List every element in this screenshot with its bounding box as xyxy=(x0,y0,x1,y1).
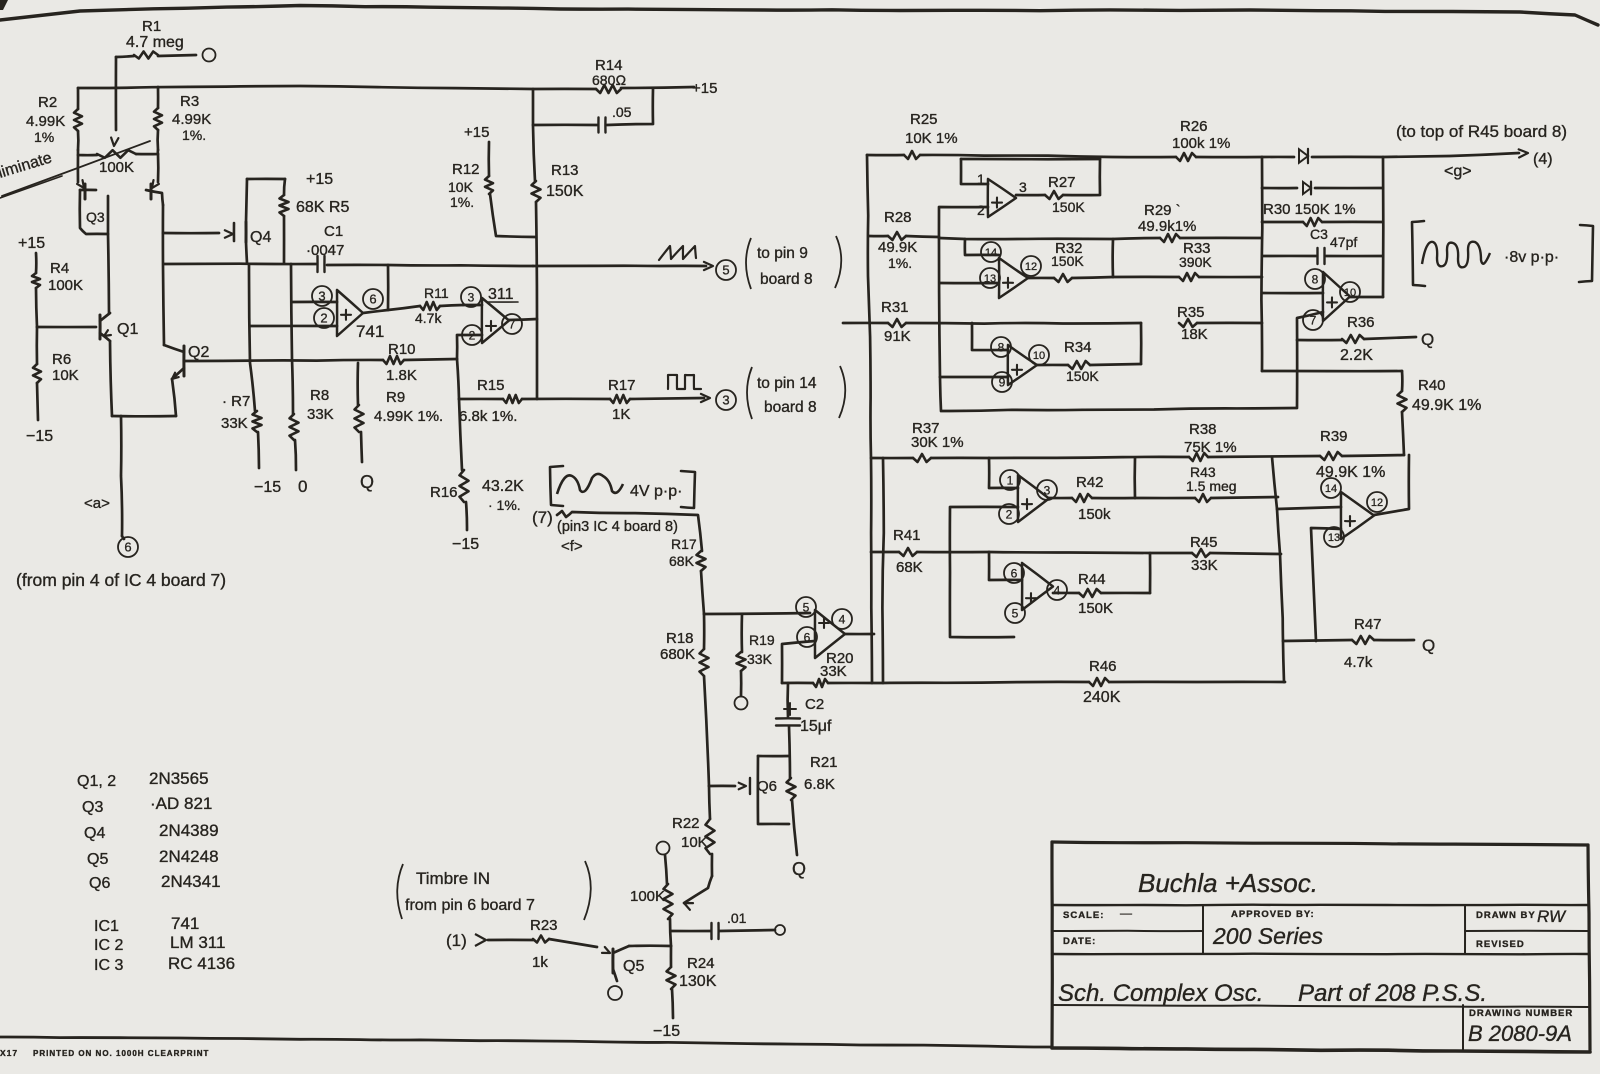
svg-text:6.8k 1%.: 6.8k 1%. xyxy=(459,408,517,425)
741 pin 2 wire xyxy=(250,325,337,328)
left rail upper xyxy=(867,155,872,683)
U10 pin 14 wire xyxy=(1277,507,1341,509)
svg-text:Q1, 2: Q1, 2 xyxy=(77,773,116,790)
svg-text:13: 13 xyxy=(1328,532,1340,544)
resistor R45 xyxy=(989,552,1192,553)
note to pin 14 board 8 xyxy=(747,367,752,419)
resistor R44 xyxy=(1053,592,1079,595)
diode D2 wire xyxy=(1262,187,1297,190)
wire 311pin2 col to R15 line xyxy=(457,359,459,399)
pin 8 circle xyxy=(991,337,1011,357)
svg-text:4V p·p·: 4V p·p· xyxy=(630,483,682,500)
mid op-amp output wire xyxy=(845,633,874,636)
svg-text:from pin 6 board 7: from pin 6 board 7 xyxy=(405,897,535,914)
svg-text:RW: RW xyxy=(1537,907,1567,926)
svg-text:2: 2 xyxy=(469,328,476,342)
svg-text:R29 `: R29 ` xyxy=(1144,202,1181,219)
svg-text:R31: R31 xyxy=(881,299,909,316)
svg-text:+15: +15 xyxy=(464,124,489,141)
square wave symbol xyxy=(668,375,701,389)
svg-text:Q: Q xyxy=(792,859,806,879)
svg-text:15μf: 15μf xyxy=(800,718,832,735)
svg-text:R25: R25 xyxy=(910,111,938,128)
svg-text:board 8: board 8 xyxy=(764,399,817,416)
svg-text:10K 1%: 10K 1% xyxy=(905,130,958,147)
resistor R39 xyxy=(1320,452,1342,460)
svg-text:LM 311: LM 311 xyxy=(170,933,225,952)
svg-text:75K 1%: 75K 1% xyxy=(1184,439,1237,456)
svg-text:R22: R22 xyxy=(672,815,700,832)
U8 pin 2 wire xyxy=(950,507,1018,637)
svg-text:4.7 meg: 4.7 meg xyxy=(126,34,184,51)
title sch underline xyxy=(1052,1005,1588,1007)
svg-text:R19: R19 xyxy=(749,632,775,648)
svg-text:R38: R38 xyxy=(1189,421,1217,438)
svg-text:−15: −15 xyxy=(452,536,479,553)
svg-text:4.99K 1%.: 4.99K 1%. xyxy=(374,408,443,425)
svg-text:(7): (7) xyxy=(532,508,553,527)
pot wiper arrow xyxy=(111,138,118,147)
wire pot left leg to Q3 pair xyxy=(77,155,80,182)
U9 pin 4 circle xyxy=(1047,580,1067,600)
svg-text:200 Series: 200 Series xyxy=(1212,923,1323,949)
waveform bracket 4Vpp xyxy=(550,466,563,506)
resistor R6 xyxy=(35,327,38,364)
resistor R42 xyxy=(1049,497,1072,500)
pin 14 circle xyxy=(981,242,1001,262)
U10 output wire xyxy=(1374,455,1409,515)
node circled 6 xyxy=(118,537,138,557)
resistor R47 xyxy=(1283,640,1352,641)
C1 feedback wire xyxy=(387,265,390,310)
resistor R12 xyxy=(485,176,493,194)
sawtooth wave symbol xyxy=(659,246,696,260)
svg-text:R35: R35 xyxy=(1177,304,1205,321)
sheet bottom border xyxy=(0,1037,1052,1047)
output arrow (4) xyxy=(1519,149,1528,157)
transistor Q2 xyxy=(182,346,185,376)
node circled 5 xyxy=(716,260,736,280)
resistor R46 xyxy=(1089,678,1109,686)
svg-text:150K: 150K xyxy=(1078,600,1113,617)
op-amp U5 (14,13,12) xyxy=(999,258,1028,298)
pin 10 circle xyxy=(1029,345,1049,365)
svg-text:10K: 10K xyxy=(52,367,79,384)
svg-text:R36: R36 xyxy=(1347,314,1375,331)
svg-text:R24: R24 xyxy=(687,955,715,972)
eliminate strike line xyxy=(2,141,150,196)
svg-text:5: 5 xyxy=(1012,606,1019,620)
svg-text:to pin 9: to pin 9 xyxy=(757,245,808,262)
diode D1 xyxy=(1299,149,1308,163)
svg-text:3: 3 xyxy=(468,290,475,304)
svg-text:+15: +15 xyxy=(18,235,45,252)
wire Q2 emitter down xyxy=(172,379,176,416)
svg-text:Q6: Q6 xyxy=(89,875,110,892)
wire emitter bus to node a xyxy=(121,416,122,536)
note to pin 9 board 8 xyxy=(746,238,751,289)
wire R12 to R13 column xyxy=(490,194,536,237)
svg-text:150K: 150K xyxy=(1052,199,1085,215)
svg-text:C1: C1 xyxy=(324,223,343,240)
resistor R10 line xyxy=(184,360,383,361)
resistor R19 xyxy=(740,614,743,652)
svg-text:4.99K: 4.99K xyxy=(172,111,211,128)
svg-text:91K: 91K xyxy=(884,328,911,345)
svg-text:5: 5 xyxy=(803,600,810,614)
svg-text:100K: 100K xyxy=(99,159,134,176)
311 pin 2 wire xyxy=(457,335,482,359)
op-amp U9 (6,5,4) lower xyxy=(1022,563,1053,610)
svg-text:2N4248: 2N4248 xyxy=(159,847,219,866)
311 pin 7 circle xyxy=(502,314,522,334)
svg-text:B 2080-9A: B 2080-9A xyxy=(1468,1021,1572,1046)
U7 pin 8 circle xyxy=(1305,269,1325,289)
U9 pin 6 wire xyxy=(989,552,1022,580)
svg-text:6.8K: 6.8K xyxy=(804,776,835,793)
svg-text:R17: R17 xyxy=(671,536,697,552)
svg-text:R6: R6 xyxy=(52,351,71,368)
svg-text:<a>: <a> xyxy=(84,495,110,512)
svg-text:R39: R39 xyxy=(1320,428,1348,445)
svg-text:49.9K: 49.9K xyxy=(878,239,917,256)
U8 pin 2 circle xyxy=(999,504,1019,524)
op-amp U1 741 xyxy=(337,290,363,336)
svg-text:—: — xyxy=(1120,906,1132,920)
svg-text:REVISED: REVISED xyxy=(1476,939,1525,950)
op-amp U4 top (1,2,3) xyxy=(988,179,1016,217)
svg-text:130K: 130K xyxy=(679,973,717,990)
U7 pin 10 circle xyxy=(1340,282,1360,302)
311 output wire xyxy=(509,319,537,320)
svg-text:30K 1%: 30K 1% xyxy=(911,434,964,451)
svg-text:4.7k: 4.7k xyxy=(415,310,442,326)
R27 feedback top wire xyxy=(961,158,1100,161)
svg-text:1K: 1K xyxy=(612,406,630,423)
mid op-amp pin 5 circle xyxy=(796,597,816,617)
svg-text:R46: R46 xyxy=(1089,658,1117,675)
op-amp U10 (14,13,12) right xyxy=(1341,492,1374,539)
resistor R17 xyxy=(610,395,630,403)
comparator 311 pin 3 circle xyxy=(461,287,481,307)
svg-text:R44: R44 xyxy=(1078,571,1106,588)
svg-text:R9: R9 xyxy=(386,389,405,406)
U8 pin 3 circle xyxy=(1037,480,1057,500)
main +15 bus top xyxy=(78,86,596,89)
svg-text:· R7: · R7 xyxy=(222,393,250,410)
resistor R23 xyxy=(488,939,533,942)
op-amp U6 (8,9,10) xyxy=(1008,345,1037,385)
741 pin 3 circle xyxy=(312,286,332,306)
title mid divider xyxy=(1052,953,1588,956)
wire Q3 to Q1 collector xyxy=(108,234,109,313)
capacitor C2 xyxy=(786,683,789,717)
svg-text:R41: R41 xyxy=(893,527,921,544)
U10 pin 12 circle xyxy=(1367,492,1387,512)
svg-text:Q: Q xyxy=(1421,330,1434,349)
svg-text:R10: R10 xyxy=(388,341,416,358)
resistor R14 xyxy=(596,85,621,93)
svg-text:1%.: 1%. xyxy=(888,255,912,271)
C1 integrator bus xyxy=(164,262,316,265)
svg-text:R26: R26 xyxy=(1180,118,1208,135)
svg-text:R40: R40 xyxy=(1418,377,1446,394)
diode block right rail xyxy=(1382,157,1385,297)
svg-text:2.2K: 2.2K xyxy=(1340,347,1373,364)
resistor R30 xyxy=(1262,221,1303,224)
sheet top border xyxy=(0,6,1598,26)
svg-text:Q3: Q3 xyxy=(86,209,105,225)
svg-text:10: 10 xyxy=(1033,350,1045,362)
pin 8 wire xyxy=(972,323,1008,350)
resistor R40 xyxy=(1401,371,1404,391)
resistor R26 xyxy=(1176,153,1196,161)
svg-text:R47: R47 xyxy=(1354,616,1382,633)
U7 pin 7 circle xyxy=(1303,310,1323,330)
resistor R5 xyxy=(284,179,285,195)
svg-text:18K: 18K xyxy=(1181,326,1208,343)
svg-text:3: 3 xyxy=(722,393,729,408)
svg-text:150K: 150K xyxy=(1066,368,1099,384)
svg-text:2: 2 xyxy=(977,202,985,218)
resistor R18 xyxy=(703,614,706,649)
svg-text:R15: R15 xyxy=(477,377,505,394)
resistor R35 xyxy=(1179,319,1197,327)
741 pin 2 circle xyxy=(314,308,334,328)
wire R1 to pot wiper xyxy=(115,57,118,130)
svg-text:390K: 390K xyxy=(1179,254,1212,270)
svg-text:IC 3: IC 3 xyxy=(94,957,123,974)
note Timbre IN xyxy=(397,864,403,919)
terminal O of R1 xyxy=(203,49,216,62)
title col divider 2 xyxy=(1464,905,1466,954)
svg-text:.05: .05 xyxy=(612,104,632,120)
resistor R16 xyxy=(459,399,462,470)
resistor R29 xyxy=(1160,234,1180,242)
pin 13 wire xyxy=(940,282,999,285)
node circled 3 output xyxy=(716,390,736,410)
svg-text:100k 1%: 100k 1% xyxy=(1172,135,1230,152)
resistor R15 xyxy=(459,398,503,401)
mid op-amp pin 6 circle xyxy=(797,627,817,647)
op-amp U8 (1,2,3) lower xyxy=(1018,475,1049,522)
svg-text:R13: R13 xyxy=(551,162,579,179)
svg-text:6: 6 xyxy=(124,540,131,555)
op-amp U7 (8,9,10) right xyxy=(1323,272,1350,321)
U9 pin 6 circle xyxy=(1004,563,1024,583)
op-amp U3 mid xyxy=(815,610,845,658)
input arrow xyxy=(475,934,486,946)
svg-text:1%: 1% xyxy=(34,129,54,145)
wire +15 to R5 xyxy=(247,178,285,181)
terminal o of .01 xyxy=(775,925,785,935)
svg-text:· 1%.: · 1%. xyxy=(488,497,521,513)
svg-text:RC 4136: RC 4136 xyxy=(168,954,235,973)
svg-text:33K: 33K xyxy=(307,406,334,423)
svg-text:100K: 100K xyxy=(48,277,83,294)
transistor Q1 xyxy=(99,315,102,339)
R29 bus xyxy=(939,238,1160,239)
311 pin 3 stub xyxy=(463,304,482,307)
svg-text:12: 12 xyxy=(1371,497,1383,509)
svg-text:.01: .01 xyxy=(727,910,747,926)
svg-text:R27: R27 xyxy=(1048,174,1076,191)
U7 pin 7 wire xyxy=(1297,312,1323,408)
resistor R25 xyxy=(867,154,904,157)
node R18 junction wire to op-amp pin5 xyxy=(704,613,810,614)
svg-text:R28: R28 xyxy=(884,209,912,226)
transistor Q3 right base bar xyxy=(150,184,153,199)
svg-text:311: 311 xyxy=(488,286,514,303)
U7 pin 8 wire xyxy=(1262,292,1323,295)
svg-text:X17: X17 xyxy=(0,1048,18,1058)
svg-text:2N4341: 2N4341 xyxy=(161,872,221,891)
svg-text:R4: R4 xyxy=(50,260,69,277)
transistor Q3 outline xyxy=(80,190,108,234)
svg-text:680K: 680K xyxy=(660,646,695,663)
svg-text:10K: 10K xyxy=(681,834,708,851)
svg-text:SCALE:: SCALE: xyxy=(1063,910,1104,921)
resistor R17-68K xyxy=(697,551,706,571)
svg-text:1.8K: 1.8K xyxy=(386,367,417,384)
U9 pin 5 circle xyxy=(1005,603,1025,623)
svg-text:6: 6 xyxy=(369,292,376,307)
resistor R37 xyxy=(871,457,913,460)
Q5 drain wire xyxy=(629,944,671,947)
svg-text:R17: R17 xyxy=(608,377,636,394)
svg-text:10K: 10K xyxy=(448,179,474,195)
svg-text:Q1: Q1 xyxy=(117,321,138,338)
resistor R38 xyxy=(989,457,1189,458)
resistor R31 xyxy=(843,322,888,325)
svg-text:DRAWN BY: DRAWN BY xyxy=(1476,910,1536,921)
svg-text:4.7k: 4.7k xyxy=(1344,654,1373,671)
svg-text:150K: 150K xyxy=(546,183,584,200)
transistor Q5 xyxy=(611,949,614,973)
capacitor C2 plus xyxy=(784,708,796,710)
svg-text:1k: 1k xyxy=(532,954,548,971)
capacitor C1 xyxy=(316,256,318,272)
svg-text:5: 5 xyxy=(722,263,729,278)
wire Q1 emitter down xyxy=(110,341,112,416)
waveform .8v pp xyxy=(1412,221,1425,286)
resistor R8 xyxy=(291,264,293,414)
resistor R3 xyxy=(157,87,160,108)
svg-text:C3: C3 xyxy=(1310,226,1328,242)
svg-text:IC1: IC1 xyxy=(94,918,119,935)
title col divider 1 xyxy=(1202,905,1204,954)
wire Q1-Q2 emitter bus xyxy=(112,415,176,418)
svg-text:(from pin 4 of IC 4 board 7): (from pin 4 of IC 4 board 7) xyxy=(16,570,226,590)
resistor R33 xyxy=(1113,276,1179,279)
svg-text:APPROVED BY:: APPROVED BY: xyxy=(1231,909,1315,920)
svg-text:2N4389: 2N4389 xyxy=(159,821,219,840)
wire rail bottom to R40 xyxy=(1262,370,1402,373)
svg-text:Buchla +Assoc.: Buchla +Assoc. xyxy=(1138,868,1318,898)
mid op-amp pin 4 circle xyxy=(832,609,852,629)
svg-text:8: 8 xyxy=(1312,272,1319,286)
svg-text:2: 2 xyxy=(1006,507,1013,521)
wire R22 to pot wiper xyxy=(711,854,714,876)
R20 R46 feedback bus xyxy=(782,682,813,685)
node R4 R6 junction to Q1 base xyxy=(37,326,96,329)
svg-text:Q5: Q5 xyxy=(623,958,644,975)
svg-text:1.5 meg: 1.5 meg xyxy=(1186,478,1237,494)
svg-text:4: 4 xyxy=(839,612,846,626)
transistor Q3 left base bar xyxy=(84,184,87,199)
svg-text:150k: 150k xyxy=(1078,506,1111,523)
svg-text:Part of 208 P.S.S.: Part of 208 P.S.S. xyxy=(1298,980,1487,1007)
svg-text:47pf: 47pf xyxy=(1330,234,1357,250)
svg-text:49.9k1%: 49.9k1% xyxy=(1138,218,1196,235)
resistor R21 xyxy=(787,778,796,800)
741 output wire xyxy=(363,306,420,313)
svg-text:741: 741 xyxy=(171,914,199,933)
svg-text:741: 741 xyxy=(356,322,384,341)
svg-text:4: 4 xyxy=(1054,583,1061,597)
pot 100K-2 top O xyxy=(657,842,670,855)
resistor R36 2.2K xyxy=(1297,339,1342,342)
svg-text:R12: R12 xyxy=(452,161,480,178)
svg-text:49.9K 1%: 49.9K 1% xyxy=(1412,397,1481,414)
pin 9 circle xyxy=(992,372,1012,392)
741 pin 6 circle xyxy=(363,289,383,309)
svg-text:R45: R45 xyxy=(1190,534,1218,551)
resistor R43 xyxy=(1135,497,1195,500)
svg-text:C2: C2 xyxy=(805,696,824,713)
svg-text:Q4: Q4 xyxy=(250,229,271,246)
svg-text:R16: R16 xyxy=(430,484,458,501)
svg-text:68K: 68K xyxy=(669,553,695,569)
resistor R2 xyxy=(77,88,80,109)
svg-text:Q2: Q2 xyxy=(188,344,209,361)
R27 output wire xyxy=(1016,194,1045,197)
resistor R28 xyxy=(869,235,888,238)
svg-text:PRINTED ON NO. 1000H CLEARPRIN: PRINTED ON NO. 1000H CLEARPRINT xyxy=(33,1049,209,1058)
resistor R24 xyxy=(670,946,673,967)
svg-text:68K: 68K xyxy=(896,559,923,576)
svg-text:3: 3 xyxy=(1044,483,1051,497)
svg-text:Q5: Q5 xyxy=(87,851,108,868)
capacitor .01 wire xyxy=(671,930,711,933)
title divider under name xyxy=(1052,904,1588,907)
pin 14 wire xyxy=(965,239,999,255)
svg-text:(to top of R45 board 8): (to top of R45 board 8) xyxy=(1396,122,1567,141)
pin 12 circle xyxy=(1021,256,1041,276)
svg-text:R30 150K 1%: R30 150K 1% xyxy=(1263,201,1356,218)
wire node7 to R17-68K xyxy=(557,511,702,551)
resistor R32 xyxy=(1028,277,1054,280)
wire Q3 area to Q4 gate xyxy=(163,232,219,235)
svg-text:+15: +15 xyxy=(306,171,333,188)
svg-text:R23: R23 xyxy=(530,917,558,934)
svg-text:−15: −15 xyxy=(254,479,281,496)
resistor R27 xyxy=(1045,191,1063,199)
resistor R13 column xyxy=(533,125,535,181)
svg-text:33K: 33K xyxy=(221,415,248,432)
resistor R34 xyxy=(1037,364,1068,367)
capacitor C3 xyxy=(1262,255,1316,258)
svg-text:1: 1 xyxy=(1007,473,1014,487)
svg-text:14: 14 xyxy=(1325,483,1337,495)
svg-text:100K: 100K xyxy=(630,888,665,905)
svg-text:3: 3 xyxy=(1019,179,1027,195)
svg-text:DATE:: DATE: xyxy=(1063,936,1096,947)
svg-text:Q3: Q3 xyxy=(82,799,103,816)
lower long bus xyxy=(940,377,1296,411)
svg-text:3: 3 xyxy=(318,289,325,304)
svg-text:IC 2: IC 2 xyxy=(94,937,123,954)
